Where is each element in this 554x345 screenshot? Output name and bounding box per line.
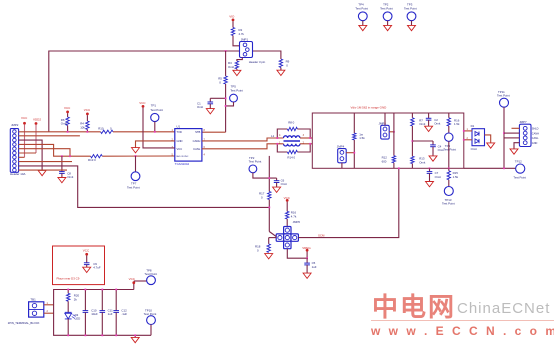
- svg-text:Place near D3 C9: Place near D3 C9: [57, 276, 80, 280]
- ground TP4: [359, 25, 367, 30]
- wire TP2b to C6: [253, 173, 277, 178]
- capacitor C4 Omit: [430, 144, 436, 146]
- svg-text:Test Point: Test Point: [127, 185, 140, 189]
- svg-text:R14 0: R14 0: [287, 156, 295, 160]
- ground D1: [487, 143, 495, 148]
- resistor R4 10k: [86, 115, 88, 121]
- svg-text:4.7k: 4.7k: [291, 214, 297, 218]
- svg-text:CANL: CANL: [532, 137, 539, 140]
- wire left pad to R18: [269, 237, 277, 239]
- svg-text:Test Point: Test Point: [497, 93, 510, 97]
- ground row3: [38, 170, 46, 175]
- svg-text:Header 10A: Header 10A: [10, 172, 25, 176]
- ground rail: [134, 335, 136, 337]
- svg-text:Omit: Omit: [434, 122, 440, 126]
- wire D1 pin2: [464, 139, 472, 141]
- svg-text:TP12: TP12: [515, 159, 522, 163]
- svg-text:JMP6: JMP6: [293, 220, 301, 224]
- wire R17 column: [268, 156, 270, 192]
- svg-text:2PIN_TERMINAL_BLOCK: 2PIN_TERMINAL_BLOCK: [8, 321, 40, 325]
- wire row7: [19, 156, 25, 158]
- svg-text:Omit: Omit: [197, 105, 203, 109]
- svg-text:Header 3 pin: Header 3 pin: [249, 60, 266, 64]
- resistor R10 0: [101, 130, 113, 133]
- svg-text:SHD VIO/NC: SHD VIO/NC: [176, 156, 189, 158]
- svg-text:Test Point: Test Point: [230, 88, 243, 92]
- wire JMP5 stubs: [384, 113, 386, 125]
- svg-text:4: 4: [279, 134, 281, 137]
- resistor R12 600: [393, 113, 395, 156]
- wire JMP7 pin3: [504, 137, 519, 139]
- diode D3 LED: [65, 312, 72, 319]
- resistor R7 Omit: [411, 113, 413, 118]
- wire VCC to U1: [143, 108, 175, 148]
- wire row6: [19, 152, 37, 154]
- wire D1 pin1: [464, 130, 472, 132]
- ground TP2: [384, 25, 392, 30]
- svg-text:0: 0: [261, 195, 263, 199]
- svg-text:.1uF: .1uF: [121, 312, 127, 316]
- wire row2: [19, 135, 80, 137]
- svg-text:JMP2: JMP2: [11, 123, 19, 127]
- wire JMP1 to R3: [237, 58, 242, 62]
- svg-text:VCC: VCC: [21, 116, 28, 120]
- capacitor C5 1uF: [306, 258, 308, 263]
- svg-text:LED: LED: [75, 317, 81, 321]
- wire power rails: [54, 290, 151, 336]
- capacitor C6 Omit: [276, 178, 278, 181]
- svg-text:JMP7: JMP7: [519, 120, 527, 124]
- wire TB1 pin1: [44, 304, 54, 306]
- testpoint TP7: [135, 155, 137, 157]
- testpoint TP9: [445, 133, 453, 141]
- svg-text:2k: 2k: [74, 297, 78, 301]
- svg-text:D1: D1: [471, 124, 475, 128]
- svg-text:VCC: VCC: [64, 106, 71, 110]
- wire row9 long: [19, 166, 270, 208]
- svg-text:Vdiv 1M 562 in range GND: Vdiv 1M 562 in range GND: [351, 106, 388, 110]
- svg-text:1.5k: 1.5k: [454, 122, 460, 126]
- ground JMP7: [510, 149, 518, 154]
- resistor R17 0: [268, 192, 271, 200]
- resistor R20 2k: [67, 290, 69, 294]
- svg-text:4: 4: [204, 153, 206, 156]
- wire CANH: [202, 138, 284, 141]
- resistor R3 Omit: [235, 61, 238, 69]
- wire branch to C4: [412, 140, 433, 142]
- svg-text:4.7uF: 4.7uF: [93, 266, 101, 270]
- wire TB1 pin2: [44, 312, 54, 314]
- wire row10: [19, 169, 68, 171]
- svg-text:10uF: 10uF: [91, 312, 98, 316]
- wire VIO to R2: [232, 21, 234, 27]
- testpoint TP13: [444, 187, 453, 196]
- ground R18: [265, 254, 273, 259]
- resistor R18 0: [267, 244, 270, 253]
- svg-text:Omit: Omit: [281, 182, 287, 186]
- svg-text:Test Point: Test Point: [380, 6, 393, 10]
- ground R3: [233, 70, 241, 75]
- wire GND U1: [136, 141, 175, 148]
- wire JMP4 stubs: [346, 152, 354, 154]
- wire TP9 down: [448, 141, 450, 168]
- resistor R9: [279, 59, 282, 68]
- svg-text:Omit: Omit: [471, 147, 477, 151]
- capacitor C10 10uF: [84, 290, 86, 311]
- svg-text:1uF: 1uF: [312, 265, 317, 269]
- watermark www.ECCN.com: [371, 324, 554, 338]
- svg-text:0: 0: [219, 80, 221, 84]
- junction bus-R5: [225, 50, 227, 52]
- wire TP11 stem: [503, 107, 505, 168]
- ground TP3: [408, 25, 416, 30]
- svg-text:Test Point: Test Point: [404, 6, 417, 10]
- svg-text:Omit: Omit: [435, 175, 441, 179]
- resistor R2 4.7k: [231, 28, 234, 36]
- wire R2 to JMP1: [233, 36, 240, 46]
- wire R17 to pad: [268, 200, 270, 232]
- svg-text:Omit: Omit: [419, 160, 425, 164]
- ground C6: [273, 187, 281, 192]
- wire CANL: [202, 144, 284, 149]
- svg-text:Test Point: Test Point: [443, 148, 456, 152]
- wire R5 to STB: [225, 84, 227, 132]
- resistor R5 0: [224, 76, 227, 84]
- svg-text:VCC: VCC: [83, 248, 90, 252]
- annotation box place near: [53, 246, 105, 285]
- wire row8: [19, 161, 73, 163]
- capacitor C8 Omit: [61, 155, 63, 157]
- svg-text:GND: GND: [532, 142, 538, 145]
- svg-text:1uF: 1uF: [108, 312, 113, 316]
- svg-text:Omit: Omit: [228, 65, 234, 69]
- annotation box termination: [312, 113, 464, 168]
- svg-text:VCC: VCC: [177, 147, 183, 151]
- ground C5: [303, 273, 311, 278]
- svg-text:VIO: VIO: [229, 14, 235, 18]
- ground U1: [132, 148, 140, 153]
- svg-text:VCC: VCC: [139, 101, 146, 105]
- svg-text:SCM: SCM: [318, 233, 325, 237]
- svg-text:Omit: Omit: [61, 122, 67, 126]
- wire row4 SHD: [19, 144, 91, 156]
- resistor R13b Omit: [411, 156, 414, 163]
- wire top bus STB: [49, 51, 239, 132]
- svg-text:L1: L1: [271, 134, 275, 138]
- ground C4: [429, 156, 437, 161]
- svg-text:JMP4: JMP4: [337, 144, 345, 148]
- wire row3 to ground: [19, 140, 43, 170]
- capacitor C7 Omit: [429, 167, 431, 169]
- wire JMP7 pin4: [514, 143, 519, 149]
- resistor R16b 4.7k: [286, 202, 288, 212]
- wire D1 to ground: [485, 135, 491, 143]
- svg-text:Omit: Omit: [67, 175, 73, 179]
- wire VDD2 col to pin6: [35, 125, 37, 153]
- capacitor C11 1uF: [101, 290, 103, 311]
- svg-text:Test Point: Test Point: [442, 202, 455, 206]
- capacitor C12 .1uF: [115, 290, 117, 311]
- svg-text:0: 0: [257, 248, 259, 252]
- svg-text:TCAN1042: TCAN1042: [175, 162, 190, 166]
- ground C7: [426, 182, 434, 187]
- wire row5 jog: [19, 149, 71, 157]
- svg-text:CANH: CANH: [532, 132, 539, 135]
- svg-text:R8 0: R8 0: [288, 120, 294, 124]
- ground C8: [58, 178, 66, 183]
- svg-text:CANL: CANL: [193, 147, 201, 151]
- svg-text:4.7k: 4.7k: [239, 32, 245, 36]
- svg-text:TB1: TB1: [30, 298, 36, 302]
- svg-text:1.5k: 1.5k: [453, 175, 459, 179]
- wire R7 column: [411, 126, 413, 156]
- ground C2: [425, 126, 433, 131]
- capacitor C1 Omit: [208, 101, 214, 103]
- wire CANL out: [300, 143, 312, 145]
- svg-text:Test Point: Test Point: [150, 108, 163, 112]
- wire JMP1 to R9: [253, 51, 281, 59]
- svg-text:SHLD: SHLD: [532, 128, 539, 131]
- wire VCC col to pin7: [24, 125, 26, 158]
- resistor R15 1.5k: [448, 168, 450, 171]
- svg-text:Test Point: Test Point: [355, 6, 368, 10]
- wire bottom rail extension: [464, 167, 516, 169]
- svg-text:600: 600: [382, 159, 387, 163]
- ground C9: [83, 267, 91, 272]
- svg-text:CANH: CANH: [193, 139, 201, 143]
- wire R5 column: [225, 51, 227, 76]
- svg-text:R10: R10: [98, 127, 104, 131]
- svg-text:GND: GND: [177, 139, 183, 143]
- svg-text:3: 3: [303, 134, 305, 137]
- svg-text:1.5k: 1.5k: [359, 136, 365, 140]
- svg-text:Test Point: Test Point: [249, 159, 262, 163]
- svg-text:VCC: VCC: [84, 108, 91, 112]
- wire bottom pad to VREG: [287, 249, 307, 259]
- wire branch to C1: [210, 97, 225, 99]
- svg-text:U1: U1: [176, 124, 180, 128]
- svg-text:R13 0: R13 0: [88, 158, 96, 162]
- watermark ChinaECNet: [457, 300, 550, 317]
- ground C1: [206, 109, 214, 114]
- svg-text:Test Point: Test Point: [513, 176, 526, 180]
- wire STB pin: [202, 131, 226, 133]
- wire JMP7 pin1: [512, 127, 520, 129]
- resistor R11 1.5k: [353, 113, 355, 133]
- wire diagonal to left pad: [269, 232, 276, 237]
- ground R9: [277, 70, 285, 75]
- watermark rule: [371, 320, 554, 321]
- resistor R6 Omit: [67, 113, 69, 117]
- wire CANH out: [300, 137, 312, 139]
- svg-text:VDD2: VDD2: [33, 117, 41, 121]
- svg-text:Omit: Omit: [419, 122, 425, 126]
- wire JMP7 pin2: [504, 132, 519, 134]
- svg-text:0: 0: [286, 64, 288, 68]
- capacitor C9 4.7uF: [86, 256, 88, 263]
- wire row1 TXD: [19, 131, 101, 133]
- capacitor C2 Omit: [428, 113, 430, 118]
- svg-text:10k: 10k: [80, 125, 85, 129]
- watermark 中电网: [372, 287, 456, 324]
- wire SCM net: [298, 168, 398, 237]
- svg-text:STB: STB: [195, 130, 200, 134]
- resistor R16 1.5k: [448, 113, 450, 118]
- resistor R13 0: [91, 155, 103, 158]
- svg-text:TXD: TXD: [177, 130, 182, 134]
